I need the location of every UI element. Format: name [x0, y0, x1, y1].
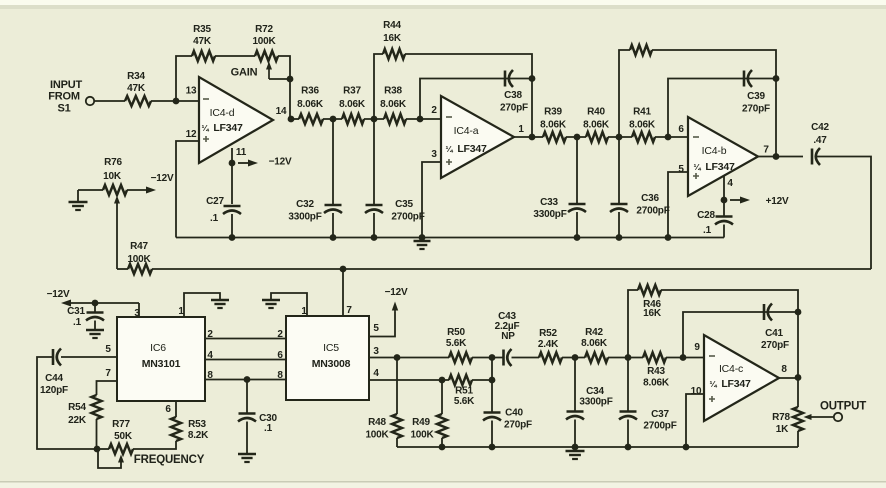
node pin5 rail junction — [665, 234, 672, 241]
wire pin5 to -12V arrow — [369, 312, 395, 337]
svg-text:3300pF: 3300pF — [579, 397, 612, 408]
svg-text:5.6K: 5.6K — [454, 396, 475, 407]
svg-text:3300pF: 3300pF — [533, 209, 566, 220]
svg-text:INPUT: INPUT — [50, 79, 82, 91]
svg-text:3: 3 — [431, 149, 437, 160]
svg-text:¼: ¼ — [710, 379, 718, 389]
svg-text:7: 7 — [346, 305, 352, 316]
node IC4-a output pin1 — [529, 134, 536, 141]
svg-text:R50: R50 — [447, 327, 465, 338]
svg-text:R72: R72 — [255, 24, 273, 35]
svg-text:R43: R43 — [647, 366, 665, 377]
wire chain to R50 — [397, 357, 449, 359]
wire R49 vertical — [441, 380, 443, 414]
wire R45 feedback line — [619, 50, 630, 137]
wire C33 to rail — [576, 212, 578, 238]
svg-text:IC4-c: IC4-c — [719, 363, 743, 375]
IC4-d plus input mark — [203, 136, 209, 142]
svg-text:270pF: 270pF — [761, 340, 789, 351]
wire R39-R40 — [566, 136, 586, 138]
svg-text:R47: R47 — [130, 241, 148, 252]
svg-text:47K: 47K — [193, 36, 212, 47]
svg-text:−12V: −12V — [269, 157, 292, 168]
svg-text:C28: C28 — [697, 210, 715, 221]
capacitor C41 — [763, 304, 766, 320]
node pin3 rail junction — [419, 234, 426, 241]
wire R34 to pin13 junction — [151, 100, 199, 102]
node R72 wiper junction — [287, 76, 294, 83]
node C39/output vertical — [773, 75, 780, 82]
svg-text:12: 12 — [186, 129, 197, 140]
svg-text:14: 14 — [276, 106, 287, 117]
svg-text:8: 8 — [277, 370, 283, 381]
resistor R78 — [793, 407, 803, 431]
wire R44 feedback — [374, 54, 383, 119]
svg-text:10K: 10K — [103, 171, 122, 182]
node IC4-d output pin14 — [288, 116, 295, 123]
IC4-d minus input mark — [203, 98, 209, 100]
svg-text:5: 5 — [678, 164, 684, 175]
op-amp U IC4-d — [199, 77, 273, 163]
svg-text:C37: C37 — [651, 409, 669, 420]
svg-text:8.06K: 8.06K — [643, 378, 670, 389]
resistor R49 — [437, 414, 447, 438]
wire C40 vertical — [491, 358, 493, 413]
node C36 rail — [616, 234, 623, 241]
node R49 bus — [439, 444, 446, 451]
svg-text:2700pF: 2700pF — [643, 421, 676, 432]
svg-text:NP: NP — [501, 331, 515, 342]
svg-text:−12V: −12V — [47, 289, 70, 300]
node junction input/pin13 — [173, 98, 180, 105]
svg-text:10: 10 — [691, 386, 702, 397]
resistor R52 — [539, 353, 562, 363]
wire C38 line — [420, 79, 532, 120]
node C41/output vertical — [795, 309, 802, 316]
svg-text:−12V: −12V — [151, 173, 174, 184]
ground at IC6 pin1 — [211, 299, 229, 301]
node C32 rail — [330, 234, 337, 241]
wire R76 wiper down to bus — [116, 203, 118, 269]
svg-text:C38: C38 — [504, 90, 522, 101]
wire R42-R43 — [608, 357, 643, 359]
svg-text:8.06K: 8.06K — [581, 338, 608, 349]
svg-text:S1: S1 — [57, 103, 70, 115]
resistor R40 — [586, 132, 608, 142]
wire R44 to IC4-a output — [405, 54, 532, 137]
IC4-b minus mark — [693, 136, 699, 138]
resistor R38 — [384, 114, 406, 124]
capacitor C39 — [743, 71, 746, 87]
node C27 rail junction — [229, 234, 236, 241]
resistor R47 — [128, 264, 152, 274]
arrow -12V left — [71, 302, 139, 304]
svg-text:100K: 100K — [410, 430, 434, 441]
wire C40 to bottom bus — [491, 421, 493, 448]
node C35 rail — [371, 234, 378, 241]
svg-text:.47: .47 — [813, 135, 827, 146]
svg-text:C39: C39 — [747, 91, 765, 102]
wire pin 4 supply — [723, 176, 725, 200]
svg-text:47K: 47K — [127, 83, 146, 94]
svg-text:2700pF: 2700pF — [636, 206, 669, 217]
potentiometer R77 — [109, 444, 133, 454]
wire pin8-pin8 — [205, 379, 286, 381]
svg-text:C44: C44 — [45, 373, 63, 384]
svg-text:100K: 100K — [252, 36, 276, 47]
wire C34 vertical — [574, 358, 576, 412]
svg-text:R36: R36 — [301, 86, 319, 97]
svg-text:2: 2 — [277, 329, 283, 340]
svg-text:R49: R49 — [412, 417, 430, 428]
node C38/output vertical — [529, 75, 536, 82]
wire pin 12 to rail — [176, 141, 199, 238]
node R54/R77/C44 junction — [94, 446, 101, 453]
node C33 rail — [574, 234, 581, 241]
svg-text:R40: R40 — [587, 107, 605, 118]
svg-text:C35: C35 — [395, 199, 413, 210]
svg-text:R44: R44 — [383, 20, 401, 31]
wire feedback bus — [117, 268, 128, 270]
node R37/R38 — [371, 116, 378, 123]
IC4-a plus mark — [446, 159, 452, 165]
node R43/C41 — [680, 354, 687, 361]
resistor R39 — [543, 132, 566, 142]
svg-text:¼: ¼ — [694, 162, 702, 172]
svg-text:C36: C36 — [641, 193, 659, 204]
arrow -12V up (IC5) — [394, 311, 396, 313]
resistor R41 — [632, 132, 655, 142]
wire R46 feedback line — [628, 290, 638, 358]
svg-text:270pF: 270pF — [742, 104, 770, 115]
capacitor C40 — [484, 411, 501, 414]
node C37 bus — [625, 444, 632, 451]
IC U IC6 MN3101 — [117, 317, 205, 401]
svg-text:8.06K: 8.06K — [339, 99, 366, 110]
ground below C31 — [86, 329, 104, 331]
svg-text:C40: C40 — [505, 408, 523, 419]
wire pin 11 down — [231, 148, 233, 204]
wire R40-R41 — [608, 136, 632, 138]
svg-text:100K: 100K — [365, 430, 389, 441]
svg-text:MN3101: MN3101 — [142, 358, 181, 370]
svg-text:.1: .1 — [264, 423, 273, 434]
resistor R46 — [638, 285, 661, 295]
capacitor C30 — [239, 412, 256, 415]
resistor R48 — [392, 414, 402, 438]
wire junction up to feedback — [176, 56, 192, 101]
IC4-c minus mark — [709, 355, 715, 357]
wire C37 vertical — [627, 358, 629, 412]
wire C36 to rail — [618, 212, 620, 238]
ground at IC5 pin1 — [262, 299, 280, 301]
svg-text:270pF: 270pF — [500, 103, 528, 114]
wire R72 right down to output node — [278, 56, 290, 119]
svg-text:8: 8 — [781, 364, 787, 375]
capacitor C33 — [569, 203, 586, 206]
svg-text:8.06K: 8.06K — [380, 99, 407, 110]
resistor R44 — [383, 49, 405, 59]
wire top-section rail — [176, 237, 724, 239]
node R41/C39 — [665, 134, 672, 141]
svg-text:R34: R34 — [127, 71, 145, 82]
ground below C30 — [238, 453, 256, 455]
resistor R36 — [299, 114, 323, 124]
op-amp U IC4-b — [688, 117, 758, 196]
svg-text:C42: C42 — [811, 122, 829, 133]
node R42/R43/C37/R46 — [625, 354, 632, 361]
node R40/R41 — [616, 134, 623, 141]
svg-text:IC5: IC5 — [323, 342, 339, 354]
wire pin4 to R51 — [369, 379, 449, 381]
R76 wiper arrow — [116, 202, 118, 205]
capacitor C44 — [52, 349, 55, 365]
svg-text:R52: R52 — [539, 328, 557, 339]
wire output to R36 — [291, 118, 299, 120]
wire C42 to right edge down — [816, 157, 871, 270]
node chain R48 — [394, 354, 401, 361]
wire C44 loop — [37, 357, 97, 449]
svg-text:R76: R76 — [104, 157, 122, 168]
arrow R76 to -12V — [127, 189, 146, 191]
node bus to IC5 pin7 — [340, 266, 347, 273]
svg-text:OUTPUT: OUTPUT — [820, 401, 866, 413]
svg-text:50K: 50K — [114, 431, 133, 442]
svg-text:2700pF: 2700pF — [391, 212, 424, 223]
svg-text:5.6K: 5.6K — [446, 338, 467, 349]
IC4-c plus mark — [709, 396, 715, 402]
wire C43 to R52 — [512, 357, 540, 359]
wire ground to R76 — [78, 189, 103, 191]
svg-text:R54: R54 — [68, 402, 86, 413]
wire R38 to IC4-a pin2 — [406, 118, 441, 120]
capacitor C38 — [504, 71, 507, 87]
wire R72 wiper to feedback node — [269, 78, 290, 80]
resistor R43 — [643, 353, 666, 363]
wire R48 to bus — [396, 438, 398, 447]
svg-text:6: 6 — [678, 124, 684, 135]
wire R77 to R53 — [133, 441, 176, 449]
svg-text:R53: R53 — [188, 419, 206, 430]
svg-text:7: 7 — [105, 368, 111, 379]
svg-text:1: 1 — [518, 124, 524, 135]
svg-text:LF347: LF347 — [213, 122, 243, 134]
node IC4-c output pin8 — [795, 374, 802, 381]
wire R54 to junction — [96, 419, 98, 449]
node R51 left / R49 — [439, 377, 446, 384]
wire bottom bus — [397, 446, 798, 448]
wire R78 to bus — [797, 431, 799, 447]
wire pin6 stub — [175, 401, 177, 417]
resistor R34 — [125, 96, 151, 106]
arrow +12V at pin 4 — [730, 199, 740, 201]
wire R35 to R72 — [215, 55, 255, 57]
svg-text:IC4-d: IC4-d — [210, 107, 235, 119]
resistor R37 — [342, 114, 364, 124]
svg-text:2.4K: 2.4K — [538, 339, 559, 350]
ground below rail — [414, 240, 431, 242]
svg-text:R48: R48 — [368, 417, 386, 428]
wire output to R78 — [797, 378, 799, 408]
wire pin 5 to rail — [668, 172, 688, 238]
svg-text:8.06K: 8.06K — [297, 99, 324, 110]
capacitor C42 — [811, 149, 814, 165]
R77 wiper arrow — [120, 461, 122, 464]
wire C28 to rail end — [723, 225, 725, 238]
resistor R45 (unlabeled) — [630, 45, 652, 55]
svg-text:C41: C41 — [765, 328, 783, 339]
node R51 right — [489, 377, 496, 384]
svg-text:2: 2 — [431, 105, 437, 116]
arrow -12V at pin 11 — [238, 162, 248, 164]
svg-text:R51: R51 — [455, 386, 473, 397]
wire out to R39 — [532, 136, 543, 138]
capacitor C27 — [224, 205, 241, 208]
svg-text:R41: R41 — [633, 107, 651, 118]
svg-text:+12V: +12V — [766, 196, 789, 207]
svg-text:C27: C27 — [206, 196, 224, 207]
wire C32 to rail — [332, 213, 334, 238]
wire R45 to IC4-b output — [652, 50, 776, 156]
wire pin 3 to ground rail — [422, 162, 441, 238]
wire C34 to bus — [574, 420, 576, 448]
wire node to C32 — [332, 119, 334, 205]
wire to C30 — [246, 380, 248, 414]
ground at R76 — [77, 190, 79, 201]
svg-text:LF347: LF347 — [721, 378, 751, 390]
wire R77 wiper loop — [98, 449, 121, 468]
ground below bus — [574, 447, 576, 450]
svg-text:270pF: 270pF — [504, 420, 532, 431]
node pin4 junction — [721, 197, 728, 204]
resistor R51 — [449, 375, 472, 385]
wire C37 to bus — [627, 420, 629, 448]
wire pin 10 loop — [686, 394, 704, 447]
wire IC4-a output — [514, 136, 532, 138]
svg-text:IC4-b: IC4-b — [702, 145, 727, 157]
wire R49 to bus — [441, 438, 443, 447]
node R39/R40 — [574, 134, 581, 141]
IC U IC5 MN3008 — [286, 316, 369, 400]
capacitor C43 — [502, 350, 505, 366]
svg-text:LF347: LF347 — [457, 143, 487, 155]
capacitor C35 — [366, 204, 383, 207]
wire IC4-c output — [779, 377, 798, 379]
node R52/C34 — [572, 354, 579, 361]
svg-text:6: 6 — [277, 350, 283, 361]
svg-text:8.06K: 8.06K — [540, 120, 567, 131]
svg-text:5: 5 — [105, 344, 111, 355]
node C30 junction — [244, 376, 251, 383]
wire wiper to output terminal — [812, 416, 833, 418]
svg-text:IC4-a: IC4-a — [454, 125, 479, 137]
wire pin1 to ground — [184, 293, 220, 317]
svg-text:100K: 100K — [127, 254, 151, 265]
node C40 bus — [489, 444, 496, 451]
svg-text:.1: .1 — [210, 213, 219, 224]
svg-text:8.06K: 8.06K — [629, 120, 656, 131]
node R36/R37 — [330, 116, 337, 123]
svg-text:.1: .1 — [703, 225, 712, 236]
capacitor C36 — [611, 203, 628, 206]
svg-text:16K: 16K — [643, 308, 662, 319]
wire R43 to IC4-c pin9 — [666, 357, 704, 359]
svg-text:R37: R37 — [343, 86, 361, 97]
node C31 junction — [92, 300, 99, 307]
wire C39 line — [668, 79, 776, 138]
svg-text:7: 7 — [763, 145, 769, 156]
wire C27 to rail — [231, 214, 233, 238]
svg-text:8.06K: 8.06K — [583, 120, 610, 131]
potentiometer R72 — [255, 51, 278, 61]
resistor R54 — [92, 395, 102, 419]
capacitor C34 — [567, 410, 584, 413]
svg-text:C34: C34 — [586, 386, 604, 397]
svg-text:FREQUENCY: FREQUENCY — [134, 454, 205, 466]
capacitor C37 — [620, 410, 637, 413]
wire pin5 to C44 — [61, 356, 117, 358]
node: input terminal S1 — [86, 97, 94, 105]
IC4-b plus mark — [693, 173, 699, 179]
svg-text:22K: 22K — [68, 415, 87, 426]
wire pin3 to chain — [369, 357, 397, 359]
resistor R35 — [192, 51, 215, 61]
svg-text:8.2K: 8.2K — [188, 430, 209, 441]
IC4-a minus mark — [446, 116, 452, 118]
wire R52-R42 — [562, 357, 585, 359]
wire pin4-pin6 — [205, 359, 286, 361]
svg-text:R35: R35 — [193, 24, 211, 35]
svg-text:C32: C32 — [296, 199, 314, 210]
svg-text:.1: .1 — [73, 317, 82, 328]
wire R46 to output — [661, 290, 798, 312]
wire input to R34 — [94, 100, 125, 102]
R72 wiper arrow — [268, 70, 270, 80]
svg-text:120pF: 120pF — [40, 385, 68, 396]
op-amp U IC4-a — [441, 96, 514, 178]
capacitor C28 — [716, 215, 733, 218]
svg-text:¼: ¼ — [446, 144, 454, 154]
svg-text:4: 4 — [727, 178, 733, 189]
svg-text:3: 3 — [373, 346, 379, 357]
svg-text:11: 11 — [236, 147, 247, 158]
wire IC4-b output — [758, 156, 776, 158]
wire output vertical — [797, 312, 799, 378]
svg-text:IC6: IC6 — [150, 342, 166, 354]
svg-text:¼: ¼ — [202, 123, 210, 133]
svg-text:13: 13 — [186, 86, 197, 97]
svg-text:LF347: LF347 — [705, 161, 735, 173]
resistor R53 — [171, 417, 181, 441]
wire R41 to IC4-b pin6 — [655, 136, 688, 138]
svg-text:GAIN: GAIN — [231, 67, 258, 79]
resistor R50 — [449, 353, 472, 363]
wire C30 to ground — [246, 422, 248, 454]
wire output to C42 — [776, 156, 803, 158]
op-amp U IC4-c — [704, 335, 779, 421]
wire node to C33 — [576, 137, 578, 204]
wire R50 to C43 — [472, 357, 504, 359]
wire R48 vertical — [396, 358, 398, 415]
wire IC5 pin1 to ground — [271, 293, 307, 316]
R78 wiper arrow — [811, 416, 814, 418]
node pin10 bus — [683, 444, 690, 451]
svg-text:4: 4 — [373, 368, 379, 379]
wire R37-R38 — [364, 118, 384, 120]
svg-text:−12V: −12V — [385, 287, 408, 298]
wire R51 to C40 node — [472, 379, 492, 381]
node IC4-b output pin7 — [773, 153, 780, 160]
